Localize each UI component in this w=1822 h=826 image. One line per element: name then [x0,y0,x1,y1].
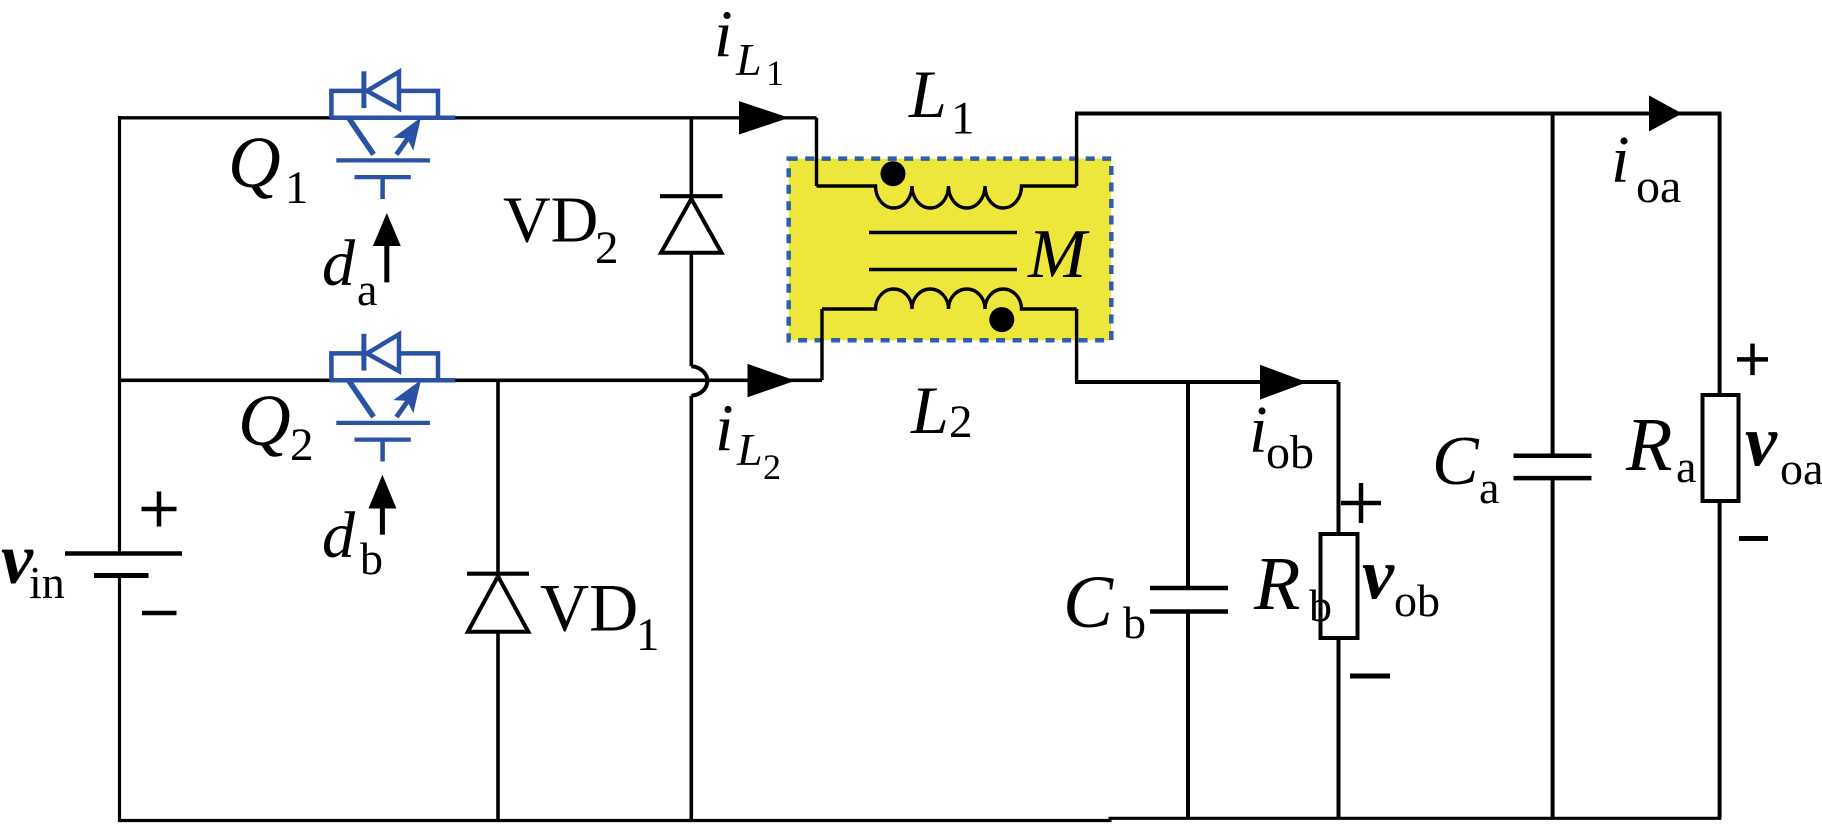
diode VD1 cathode bar [467,572,529,576]
svg-text:1: 1 [285,162,309,214]
wire: bottom rail right segment [1109,817,1722,820]
resistor Rb branch wire [1337,382,1341,819]
wire: top rail right [1075,112,1721,116]
label v_oa [1745,402,1822,495]
arrow d_a (gate drive) [373,213,401,282]
svg-text:Q: Q [228,122,281,203]
svg-text:i: i [715,391,734,465]
label Cb [1063,561,1146,648]
label Ra [1625,403,1696,492]
label Ca [1432,423,1499,513]
svg-text:oa: oa [1780,443,1822,494]
svg-text:C: C [1063,561,1114,644]
wire: L2 entry rise [820,309,823,380]
diode VD2 cathode bar [660,194,723,198]
svg-text:2: 2 [290,419,314,471]
label d_a [322,227,377,315]
svg-text:i: i [714,0,733,71]
svg-text:1: 1 [766,53,784,93]
label i_L2 [715,391,781,487]
capacitor Cb wire lower [1186,612,1190,820]
svg-text:i: i [1611,123,1630,197]
wire: input left vertical upper [118,116,121,553]
coupled inductor coupling region (yellow box, dashed border) [789,159,1112,341]
svg-text:2: 2 [595,222,619,274]
svg-text:v: v [1745,402,1778,482]
svg-text:2: 2 [949,396,973,448]
L2 polarity dot [989,307,1014,332]
wire: top rail left [118,116,817,119]
capacitor Ca wire upper [1551,114,1555,456]
wire: L1 entry drop [815,118,818,186]
arrow i_oa [1649,95,1682,131]
svg-text:a: a [357,264,377,315]
minus v_oa [1739,536,1768,541]
label d_b [322,499,383,584]
label Q1 [228,122,309,214]
svg-text:Q: Q [238,380,291,461]
battery plus sign [142,492,177,527]
capacitor Cb wire upper [1186,382,1190,588]
svg-text:b: b [1123,597,1146,648]
wire: L2 exit drop [1075,309,1078,382]
arrow i_ob [1260,365,1307,400]
arrow d_b (gate drive) [369,475,397,535]
svg-text:a: a [1676,441,1696,492]
capacitor Ca top plate [1514,453,1592,458]
wire: bottom rail left segment [118,819,1112,822]
capacitor Cb top plate [1150,586,1228,591]
transistor Q1 (IGBT with antiparallel diode) [330,71,455,199]
svg-text:ob: ob [1394,575,1440,626]
label i_L1 [714,0,784,93]
svg-text:i: i [1249,393,1268,467]
arrow i_L2 [748,364,796,397]
label L1 [908,56,975,144]
battery minus sign [142,611,177,616]
L1 polarity dot [881,161,906,186]
capacitor Ca bottom plate [1514,476,1592,481]
label v_in [1,519,65,608]
svg-text:2: 2 [763,447,781,487]
svg-text:oa: oa [1636,160,1681,213]
svg-text:a: a [1479,462,1499,513]
wire: right output vertical [1718,114,1722,819]
label VD1 [540,570,660,662]
svg-text:ob: ob [1266,426,1314,479]
svg-text:1: 1 [951,93,975,145]
label Rb [1253,542,1332,631]
svg-text:d: d [322,227,356,300]
label v_ob [1362,535,1440,627]
capacitor Ca wire lower [1551,478,1555,818]
wire: L1 exit rise [1075,114,1078,187]
svg-text:in: in [29,557,65,608]
capacitor Cb bottom plate [1150,609,1228,614]
svg-text:v: v [1362,535,1395,615]
wire: hop over middle rail [691,366,707,396]
resistor Rb body [1321,534,1358,638]
battery v_in short plate [94,573,149,578]
svg-text:R: R [1253,542,1300,626]
inductor L1 winding [817,186,1077,208]
wire: VD2 branch upper (top rail to diode) [689,118,693,196]
wire: VD1 branch lower (diode to bottom rail) [496,632,500,821]
label i_ob [1249,393,1314,480]
svg-text:L: L [735,34,762,85]
inductor L2 winding [822,289,1077,309]
wire: middle rail right [1075,380,1339,384]
wire: VD2 branch lower (hop to bottom rail) [689,396,693,821]
plus v_ob [1341,483,1381,523]
svg-text:b: b [1309,580,1332,631]
svg-text:1: 1 [636,609,660,661]
label VD2 [503,184,619,275]
svg-text:L: L [736,424,763,475]
svg-text:M: M [1027,216,1090,293]
svg-text:L: L [910,372,949,448]
wire: middle rail left [118,378,822,382]
arrow i_L1 [739,101,789,134]
wire: VD1 branch upper (middle rail to diode) [496,380,500,573]
wire: VD2 branch middle (diode to hop) [689,253,693,366]
svg-text:b: b [360,533,383,584]
svg-text:C: C [1432,423,1480,500]
svg-text:VD: VD [503,184,598,257]
wire: input left vertical lower [118,576,121,823]
label i_oa [1611,123,1681,214]
diode VD2 triangle [661,199,722,253]
core line upper [869,231,1017,235]
svg-text:d: d [322,499,356,572]
svg-text:L: L [908,56,947,132]
minus v_ob [1350,674,1390,679]
svg-text:R: R [1625,403,1672,487]
diode VD1 triangle [468,576,529,632]
resistor Ra body [1703,395,1739,501]
svg-text:VD: VD [540,570,638,646]
label L2 [910,372,973,448]
core line lower [869,268,1017,272]
label Q2 [238,380,314,471]
transistor Q2 (IGBT with antiparallel diode) [330,334,455,462]
plus v_oa [1737,344,1768,376]
battery v_in long plate [65,551,182,556]
